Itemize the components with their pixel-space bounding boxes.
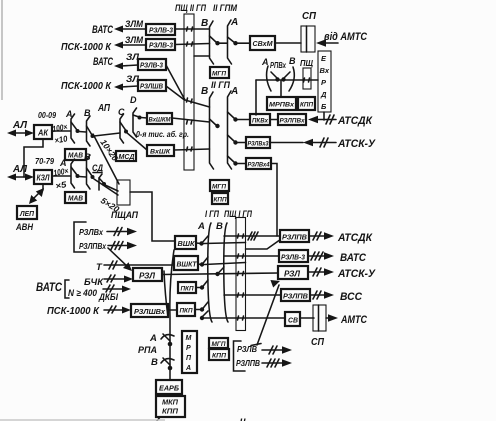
relay finder РПВх (contacts А and В)	[261, 56, 296, 91]
frame ПЩ (small)	[303, 68, 311, 89]
frame ПЩ I ГП	[236, 218, 246, 331]
svg-text:ПЩ II ГП: ПЩ II ГП	[175, 3, 206, 14]
wire I ГП to РЗЛПВ (АТСДК out)	[224, 232, 280, 249]
wire diagonal up to РЗЛ (right)	[251, 280, 280, 346]
wire bus down to МРПВх	[280, 81, 282, 97]
contact А (II ГПМ)	[228, 17, 239, 64]
svg-text:В: В	[151, 357, 158, 368]
label РПА	[138, 345, 157, 356]
wire КЗЛ to contact А2 with 100x5 label	[52, 166, 70, 191]
wire stub below МКП	[157, 417, 160, 421]
bracket РЗЛВх/РЗЛПВх	[74, 222, 86, 252]
wire ВхШК to В col II ГП	[174, 149, 210, 150]
svg-text:СП: СП	[311, 336, 324, 348]
label I ГП	[205, 209, 219, 220]
svg-text:ПЩАП: ПЩАП	[111, 210, 138, 221]
svg-text:РЗЛШВх: РЗЛШВх	[134, 307, 166, 316]
svg-text:ЛЕП: ЛЕП	[19, 209, 34, 218]
junction СП (bottom, to АМТС)	[313, 305, 326, 331]
svg-text:РПА: РПА	[138, 345, 157, 356]
node ВАТС (ЗЛМ trunk 1)	[92, 19, 143, 36]
svg-text:МГП: МГП	[212, 71, 226, 78]
svg-text:II ГПМ: II ГПМ	[213, 3, 238, 14]
arrow out АТСК-У	[308, 268, 376, 280]
relay box РЗЛВ-3 (out)	[279, 250, 308, 262]
page edge mark bottom	[0, 416, 246, 421]
box МКП КПП	[156, 396, 185, 417]
box РЗЛШВх	[131, 304, 168, 317]
svg-text:МКП: МКП	[162, 398, 179, 407]
relay box РЗЛВ-3 (1)	[146, 24, 175, 35]
wire РПВх bus	[256, 78, 318, 82]
svg-text:А: А	[149, 333, 157, 344]
svg-text:РЗЛ: РЗЛ	[139, 272, 156, 281]
contact В (АИ stage)	[84, 108, 95, 146]
wire ДКБІ arrow	[98, 285, 131, 303]
svg-text:МГП: МГП	[212, 341, 226, 348]
box ЕАРБ	[156, 380, 182, 394]
box ВхШК	[147, 145, 174, 156]
svg-text:МСД: МСД	[119, 154, 135, 161]
svg-text:БЧК: БЧК	[84, 277, 104, 288]
label РЗЛПВх with arrow	[79, 241, 137, 251]
svg-text:×5: ×5	[55, 179, 68, 191]
arrow out АМТС	[326, 314, 368, 326]
wire I ГП to СВ	[202, 317, 285, 319]
svg-text:ВАТС: ВАТС	[92, 24, 114, 36]
svg-text:АП: АП	[97, 102, 110, 114]
svg-text:МГП: МГП	[212, 184, 226, 191]
label СП (bottom)	[311, 336, 324, 348]
blade В col on РЗЛ wire	[218, 267, 225, 274]
svg-text:ПКВх: ПКВх	[252, 118, 268, 125]
wire ЗЛ 4	[121, 86, 138, 87]
wire РЗЛВ-3(1) to В contact	[175, 27, 209, 31]
svg-text:ЕАРБ: ЕАРБ	[159, 384, 180, 393]
arrow out ВСС	[310, 291, 363, 303]
relay box РЗЛВ-3 (3)	[138, 59, 166, 70]
wire ЗЛМ 2	[121, 44, 146, 46]
node РЗЛПВ with arrow	[236, 358, 292, 368]
node ПСК-1000 К (ЗЛМ trunk 2)	[61, 35, 143, 53]
contact В (II ГП)	[201, 86, 220, 169]
wire С diagonal to ВхШК	[126, 132, 147, 150]
wire В to С	[94, 133, 120, 136]
svg-text:ПЩ: ПЩ	[300, 58, 314, 68]
box МГП (bottom)	[209, 338, 228, 348]
box ВхШКМ	[147, 113, 172, 124]
wire ЕВхРДБ down to АТСДК line	[323, 112, 325, 120]
svg-text:ПСК-1000 К: ПСК-1000 К	[47, 305, 100, 317]
svg-text:ВАТС: ВАТС	[93, 56, 114, 68]
svg-text:РЗЛПВ: РЗЛПВ	[236, 358, 260, 368]
blade А col to СВ wire	[200, 311, 208, 320]
blade А to РЗЛВх3	[228, 135, 247, 145]
svg-text:АМТС: АМТС	[340, 314, 368, 326]
svg-text:РЗЛПВх: РЗЛПВх	[79, 241, 107, 251]
svg-text:МАВ: МАВ	[68, 196, 83, 203]
label АВН	[15, 222, 34, 233]
contact СД	[99, 174, 106, 190]
label 0-я тис. аб. гр.	[136, 130, 189, 139]
wire 5x20 diagonal to ПЩАП	[94, 179, 121, 214]
svg-text:АЛ: АЛ	[12, 119, 28, 131]
box РЗЛ (left)	[133, 268, 162, 281]
box МАВ (1)	[65, 149, 86, 160]
box МГП (II ГП)	[210, 67, 229, 78]
svg-text:КПП: КПП	[300, 102, 313, 109]
frame crossing ticks ПЩ I ГП	[238, 234, 244, 320]
page edge mark left	[1, 0, 3, 100]
box МГП (I ГП)	[210, 180, 229, 191]
wire РЗЛШВх to ПКП2	[168, 309, 177, 311]
svg-text:від АМТС: від АМТС	[324, 31, 368, 43]
wire РЗЛШВ diagonal up to frame	[166, 86, 185, 100]
arrow від АМТС	[316, 31, 368, 47]
relay box РЗЛПВ (ВСС)	[281, 289, 310, 301]
contact column В (I ГП)	[216, 221, 228, 322]
svg-text:ПСК-1000 К: ПСК-1000 К	[61, 80, 112, 92]
label II ГП	[211, 80, 230, 91]
svg-text:А: А	[185, 365, 191, 372]
svg-text:ЗЛМ: ЗЛМ	[125, 35, 143, 45]
svg-text:ПЩ I ГП: ПЩ I ГП	[224, 209, 252, 220]
blade А to РЗЛВх4	[228, 156, 247, 166]
box МАВ (2)	[65, 192, 86, 203]
svg-text:ВШКТ: ВШКТ	[177, 260, 198, 269]
node АЛ (lines 70-79)	[7, 163, 34, 181]
box КПП (beside МРПВх)	[298, 97, 315, 110]
svg-text:I ГП: I ГП	[205, 209, 219, 220]
label 00-09	[38, 111, 56, 120]
wire АК down to АЛ2	[24, 139, 43, 177]
svg-text:ПКП: ПКП	[181, 286, 194, 293]
svg-text:М: М	[186, 335, 192, 342]
wire frame to В col y56	[194, 55, 210, 57]
wire ВхШКМ to В col II ГП	[172, 118, 210, 122]
svg-text:РЗЛВх4: РЗЛВх4	[248, 162, 270, 169]
contact С	[118, 107, 128, 143]
node ВАТС (ЗЛ trunk 3)	[93, 52, 140, 70]
svg-text:АТСК-У: АТСК-У	[337, 138, 376, 150]
label ВАТС N>=400	[36, 280, 97, 298]
svg-text:Вх: Вх	[320, 66, 330, 75]
svg-text:РЗЛ: РЗЛ	[284, 270, 301, 279]
box ВШК	[175, 236, 196, 249]
relay box РЗЛПВх	[278, 114, 306, 125]
wire РЗЛВх4 down to РЗЛПВ	[271, 164, 277, 237]
label ПЩ I ГП	[224, 209, 252, 220]
svg-text:ВхШКМ: ВхШКМ	[149, 117, 172, 124]
blade ПКП2 to А col	[195, 302, 208, 312]
svg-text:РЗЛПВ: РЗЛПВ	[282, 235, 307, 242]
svg-text:Р: Р	[186, 345, 191, 352]
node БЧК with arrow to РЗЛ	[84, 275, 133, 288]
svg-text:РЗЛПВх: РЗЛПВх	[280, 118, 305, 125]
box СВ	[285, 312, 300, 326]
box СВхМ	[250, 36, 275, 50]
svg-text:КПП: КПП	[162, 407, 179, 416]
frame crossing ticks ПЩ II ГП	[187, 98, 193, 151]
svg-text:N ≥ 400: N ≥ 400	[68, 288, 97, 298]
wire ПКВх to РЗЛПВх	[270, 119, 278, 121]
svg-text:РЗЛВ-3: РЗЛВ-3	[140, 63, 163, 70]
arrow in from АТСК-У	[270, 138, 376, 150]
box ПКВх	[250, 114, 270, 125]
svg-text:D: D	[130, 95, 137, 105]
svg-text:РЗЛВх: РЗЛВх	[79, 227, 104, 237]
wire I ГП to РЗЛПВ (ВСС out)	[224, 294, 281, 296]
label 70-79	[35, 157, 55, 166]
svg-text:0-я тис. аб. гр.: 0-я тис. аб. гр.	[136, 130, 189, 139]
blade А to ПКВх	[228, 112, 251, 122]
box ЛЕП	[17, 206, 37, 219]
wire bus down to ПКВх	[255, 80, 257, 115]
wire СВ to СП	[300, 317, 314, 319]
svg-text:РЗЛВ-3: РЗЛВ-3	[149, 43, 173, 50]
svg-text:АТСК-У: АТСК-У	[337, 268, 376, 280]
svg-text:СД: СД	[92, 163, 103, 173]
svg-text:В: В	[216, 221, 223, 232]
svg-text:В: В	[201, 18, 208, 29]
wire А2 to В2	[79, 176, 86, 179]
svg-text:В: В	[201, 86, 208, 97]
svg-text:РЗЛПВ: РЗЛПВ	[283, 294, 308, 301]
wire В to А (II ГПМ)	[219, 42, 227, 44]
contact column А (I ГП)	[197, 221, 212, 322]
wire СВхМ to СП	[275, 42, 301, 44]
wire РЗЛВ-3(2) to В contact	[175, 42, 210, 46]
svg-text:ВСС: ВСС	[340, 291, 363, 303]
contact D	[130, 95, 142, 137]
box МРПА	[182, 331, 197, 373]
svg-text:ПСК-1000 К: ПСК-1000 К	[61, 41, 112, 53]
label ПЩ (small frame)	[300, 58, 314, 68]
node ПСК-1000 К with arrow to РЗЛШВх	[47, 305, 131, 317]
label АП	[97, 102, 110, 114]
svg-text:ВАТС: ВАТС	[36, 282, 63, 294]
contact В (II ГПМ)	[201, 18, 220, 64]
relay box РЗЛВх3	[246, 137, 270, 148]
svg-text:Д: Д	[320, 90, 327, 99]
box ВШКТ	[174, 256, 198, 270]
wire ЗЛ 3	[121, 65, 138, 66]
label II ГПМ	[213, 3, 238, 14]
frame ПЩАП	[117, 180, 130, 205]
svg-text:А: А	[230, 17, 238, 28]
relay box РЗЛВ-3 (2)	[146, 39, 175, 50]
arrow in from АТСДК	[308, 115, 373, 127]
svg-text:МРПВх: МРПВх	[269, 102, 294, 109]
svg-text:СВхМ: СВхМ	[253, 39, 274, 48]
wire 10x20 diagonal В to ПЩАП	[93, 134, 120, 184]
svg-text:Б: Б	[321, 102, 327, 111]
contact В (РПА)	[151, 357, 174, 370]
svg-text:ВАТС: ВАТС	[340, 252, 367, 264]
svg-text:РЗЛВ-3: РЗЛВ-3	[149, 28, 173, 35]
box ПКП (1)	[178, 282, 196, 293]
svg-text:В: В	[289, 56, 296, 66]
wire РЗЛВ-3(3) diagonal to II ГП	[166, 65, 210, 107]
svg-text:МАВ: МАВ	[68, 153, 83, 160]
svg-text:РЗЛВх3: РЗЛВх3	[248, 141, 269, 148]
wire А to СВхМ	[237, 42, 250, 44]
node АЛ (lines 00-09)	[7, 119, 34, 137]
svg-text:ч: ч	[240, 416, 246, 421]
label РЗЛВх with arrow	[79, 227, 137, 237]
blade ПКП1 to А col	[196, 280, 208, 290]
wire А to В	[79, 131, 86, 134]
label ПЩ II ГП (top frame name)	[175, 3, 206, 14]
wire D to ВхШКМ	[141, 117, 147, 120]
node Т with arrow to ВШКТ	[96, 261, 174, 273]
wire ПЩАП to ВШК	[130, 192, 175, 241]
svg-text:АТСДК: АТСДК	[337, 115, 373, 127]
svg-text:РПВх: РПВх	[270, 61, 286, 70]
wire АК to contact А with 100x10 label	[52, 122, 70, 146]
relay box РЗЛШВ	[138, 80, 166, 91]
svg-text:АЛ: АЛ	[12, 163, 28, 175]
label СД	[92, 163, 103, 173]
blade ВШКТ to А col	[198, 257, 208, 267]
box КЗЛ	[34, 170, 52, 184]
svg-text:СВ: СВ	[288, 316, 299, 325]
svg-text:РЗЛВ-3: РЗЛВ-3	[281, 255, 305, 262]
box МСД	[116, 151, 136, 161]
relay box РЗЛПВ (АТСДК)	[280, 230, 309, 242]
contact А (АИ stage)	[65, 109, 80, 143]
svg-text:РЗЛШВ: РЗЛШВ	[140, 84, 163, 91]
contact А (II ГП)	[228, 86, 239, 169]
box КПП (I ГП)	[212, 193, 228, 204]
wire КЗЛ down to ЛЕП with arrow	[29, 184, 44, 204]
svg-text:А: А	[261, 57, 269, 67]
svg-text:В: В	[84, 152, 91, 162]
relay box РЗЛ (АТСК-У out)	[278, 266, 308, 279]
svg-text:АВН: АВН	[15, 222, 34, 233]
svg-text:ДКБІ: ДКБІ	[98, 292, 118, 303]
svg-text:ЗЛМ: ЗЛМ	[125, 19, 143, 29]
svg-text:00-09: 00-09	[38, 111, 56, 120]
arrow out ВАТС	[308, 252, 367, 264]
node РЗЛВ with arrow	[234, 341, 293, 371]
box МРПВх	[267, 97, 296, 110]
wire down from ВШКТ to РПА column	[164, 271, 168, 317]
blade ВШК to А col	[196, 236, 208, 246]
register box ЕВхРДБ	[318, 51, 331, 112]
wire РЗЛ across to right РЗЛ box	[162, 272, 278, 276]
svg-text:ВШК: ВШК	[178, 239, 196, 248]
wire diagonal to РЗЛ top	[108, 248, 132, 271]
svg-text:КЗЛ: КЗЛ	[37, 174, 50, 183]
box КПП (bottom)	[209, 349, 229, 360]
svg-text:ВхШК: ВхШК	[150, 149, 171, 156]
relay box РЗЛВх4	[246, 158, 271, 169]
svg-text:АТСДК: АТСДК	[337, 232, 373, 244]
wire ЗЛМ 1	[121, 28, 146, 30]
svg-text:АК: АК	[37, 129, 49, 138]
wire down from ВШК to РПА column	[170, 250, 174, 380]
svg-text:А: А	[59, 158, 67, 168]
wire ВШК bundle stub through frame	[204, 243, 246, 244]
svg-text:СП: СП	[302, 10, 316, 22]
junction СП (top, to АМТС)	[301, 26, 315, 52]
label СП (top)	[302, 10, 316, 22]
contact В (КЗЛ row)	[84, 152, 95, 189]
label ПЩАП	[111, 210, 138, 221]
svg-text:II ГП: II ГП	[211, 80, 230, 91]
frame ПЩ II ГП	[184, 14, 194, 170]
arrow out АТСДК	[309, 232, 373, 244]
box ПКП (2)	[177, 303, 195, 316]
contact А (РПА)	[149, 333, 174, 346]
svg-text:С: С	[118, 107, 125, 117]
svg-text:А: А	[197, 221, 205, 232]
node ПСК-1000 К (ЗЛ trunk 4)	[61, 74, 140, 92]
wire ВШКТ bundle stub through frame	[205, 263, 246, 265]
contact А (КЗЛ row)	[59, 158, 80, 188]
box АК	[34, 125, 52, 139]
svg-text:КПП: КПП	[214, 197, 227, 204]
svg-text:ПКП: ПКП	[180, 308, 193, 315]
wire I ГП to РЗЛВ-3 (ВАТС out)	[224, 255, 279, 257]
svg-text:70-79: 70-79	[35, 157, 55, 166]
svg-text:КПП: КПП	[212, 353, 226, 360]
